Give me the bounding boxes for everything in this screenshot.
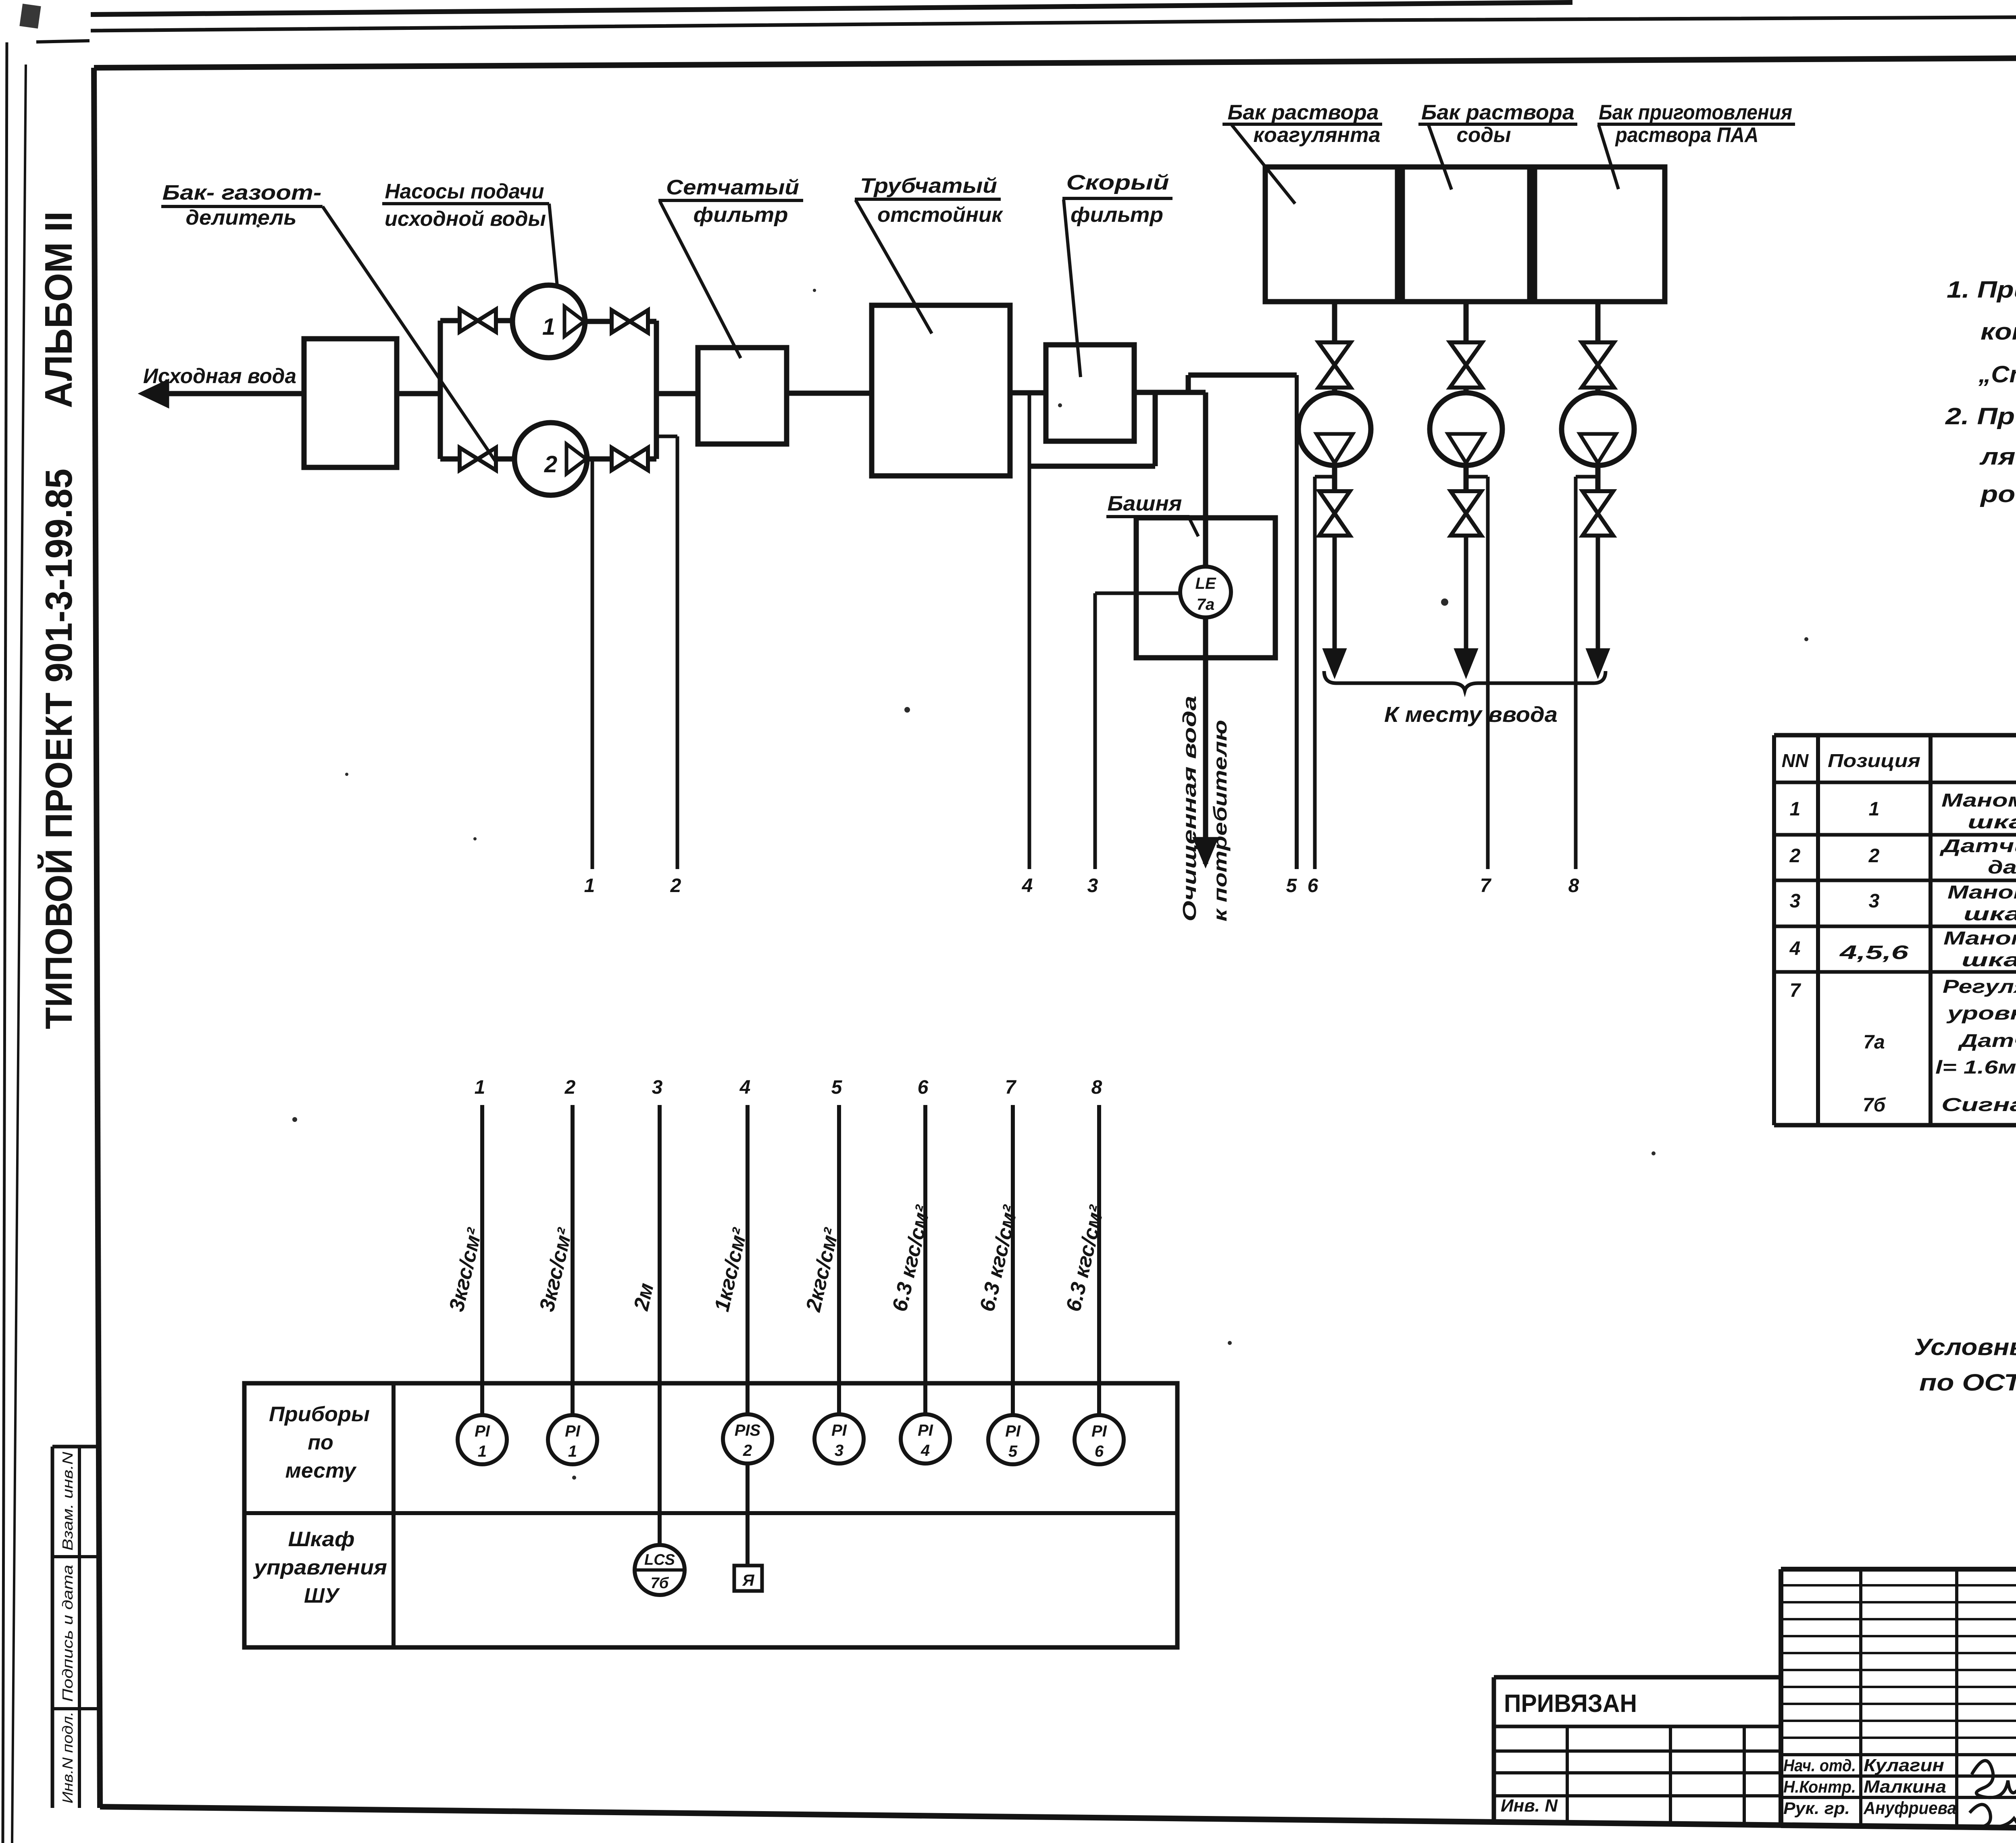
svg-text:Сигнальный Блок.: Сигнальный Блок. <box>1941 1094 2016 1115</box>
svg-text:Инв.N подл.: Инв.N подл. <box>59 1712 76 1803</box>
svg-text:PI: PI <box>1005 1422 1021 1440</box>
svg-text:ШУ: ШУ <box>304 1584 340 1607</box>
svg-text:соды: соды <box>1457 123 1511 147</box>
scan specks (noise marks from original) <box>1441 598 1448 606</box>
pump 2 (Насос 2) <box>514 423 587 495</box>
svg-text:4: 4 <box>1789 938 1801 959</box>
wire: main line to pump manifold <box>397 391 440 396</box>
svg-text:2: 2 <box>1789 845 1801 867</box>
dosing valve (ПАА) <box>1583 491 1613 513</box>
svg-text:Манометр технический: Манометр технический <box>1947 882 2016 903</box>
svg-text:PIS: PIS <box>735 1422 761 1439</box>
svg-text:PI: PI <box>475 1422 490 1440</box>
svg-text:шкала 0÷2.5 кгс/см²: шкала 0÷2.5 кгс/см² <box>1964 903 2016 924</box>
svg-text:PI: PI <box>565 1422 581 1440</box>
svg-text:Башня: Башня <box>1108 492 1182 515</box>
svg-text:4: 4 <box>1022 875 1033 896</box>
tank: Бак приготовления раствора ПАА <box>1535 167 1665 302</box>
svg-text:Насосы подачи: Насосы подачи <box>385 180 544 203</box>
svg-text:управления: управления <box>253 1556 387 1579</box>
instrument LCS 7б (cabinet) <box>635 1545 685 1595</box>
svg-text:Скорый: Скорый <box>1066 171 1169 194</box>
instrument PI 1 (local) <box>458 1415 507 1464</box>
svg-text:Условные обозначения прибо: Условные обозначения приборов <box>1914 1334 2016 1360</box>
svg-text:6: 6 <box>1308 875 1318 896</box>
dosing line arrow (коагулянт) <box>1333 536 1337 663</box>
leader to tank 2 <box>1429 125 1452 190</box>
leader line to Сетчатый фильтр <box>660 202 741 358</box>
valve before pump 2 <box>460 448 478 470</box>
svg-text:3: 3 <box>835 1442 843 1459</box>
pump 1 (Насос 1) <box>512 285 585 358</box>
svg-text:3: 3 <box>1087 875 1098 896</box>
instrument PI 1 (local) <box>548 1415 597 1464</box>
dosing line arrow (сода) <box>1464 536 1468 663</box>
svg-text:6: 6 <box>918 1077 929 1098</box>
svg-text:8: 8 <box>1091 1077 1102 1098</box>
wire: bottom branch <box>440 457 460 462</box>
svg-text:3: 3 <box>1869 890 1880 912</box>
impulse line 2 (from manifold) <box>656 435 677 438</box>
svg-text:Очищенная вода: Очищенная вода <box>1179 696 1200 921</box>
leader line to Скорый фильтр <box>1064 200 1081 377</box>
svg-text:Бак раствора: Бак раствора <box>1421 101 1574 124</box>
svg-text:Сетчатый: Сетчатый <box>666 176 799 199</box>
svg-text:месту: месту <box>285 1459 357 1482</box>
wire: treated water outlet with arrow <box>1203 617 1208 658</box>
svg-text:6: 6 <box>1095 1443 1104 1460</box>
leader to tank 3 <box>1599 125 1618 189</box>
svg-text:Инв. N: Инв. N <box>1501 1796 1558 1816</box>
line 4 continuation to cabinet lamp <box>746 1464 750 1566</box>
attachment box ПРИВЯЗАН <box>1494 1675 1781 1680</box>
lamp symbol Я (cabinet) <box>734 1566 762 1591</box>
svg-text:шкала 0÷4 кгс/см²: шкала 0÷4 кгс/см² <box>1968 811 2016 832</box>
svg-text:фильтр: фильтр <box>694 203 788 227</box>
svg-text:PI: PI <box>918 1422 933 1439</box>
svg-text:l= 1.6м – 1шт.; l=0.6м– 1шт.: l= 1.6м – 1шт.; l=0.6м– 1шт. <box>1935 1057 2016 1078</box>
svg-text:Исходная вода: Исходная вода <box>143 365 296 388</box>
svg-text:Датчик- реле разности: Датчик- реле разности <box>1939 835 2016 856</box>
svg-text:1. Прибор поз. 3 поставляет: 1. Прибор поз. 3 поставляется <box>1947 277 2016 303</box>
svg-text:„Струя“.: „Струя“. <box>1978 361 2016 388</box>
svg-text:5: 5 <box>1008 1443 1018 1460</box>
tank outlet pipe (коагулянт) <box>1332 302 1337 342</box>
tank outlet valve (сода) <box>1450 342 1482 365</box>
svg-text:LCS: LCS <box>644 1551 675 1568</box>
svg-text:PI: PI <box>1091 1422 1107 1440</box>
svg-text:Ануфриева: Ануфриева <box>1863 1798 1956 1818</box>
svg-text:Рук. гр.: Рук. гр. <box>1783 1799 1850 1818</box>
svg-text:Я: Я <box>742 1572 754 1589</box>
svg-text:5: 5 <box>1286 875 1297 896</box>
svg-text:7: 7 <box>1480 875 1492 896</box>
svg-text:5: 5 <box>831 1077 843 1098</box>
svg-text:1: 1 <box>1869 798 1880 820</box>
vessel: Скорый фильтр <box>1046 345 1134 441</box>
instrument PI 6 (local) <box>1075 1415 1124 1464</box>
svg-text:2: 2 <box>743 1442 752 1459</box>
impulse line 3 (from LE) <box>1095 592 1180 595</box>
dosing pump (сода) <box>1430 393 1502 465</box>
svg-text:4: 4 <box>739 1077 751 1098</box>
dosing valve (коагулянт) <box>1319 491 1350 513</box>
node: raw water inlet arrow (Исходная вода) <box>145 391 304 396</box>
svg-text:2. Приборы поз. 2 и поз. 4: 2. Приборы поз. 2 и поз. 4 постав- <box>1945 403 2016 429</box>
left bottom margin strip (Взам.инв.N / Подпись и дата / Инв.N подл.) <box>52 1445 100 1449</box>
svg-text:комплектно с установкой: комплектно с установкой <box>1981 319 2016 345</box>
wire: riser to impulse line 5 <box>1186 375 1191 392</box>
wire: settler to fast filter <box>1010 390 1046 396</box>
leader line to Бак-газоотделитель <box>323 206 496 461</box>
leader to tank 1 <box>1232 125 1295 204</box>
svg-text:Бак раствора: Бак раствора <box>1228 101 1379 124</box>
tank: Бак раствора соды <box>1402 167 1530 302</box>
impulse tap line (ПАА) <box>1576 475 1598 479</box>
svg-text:1: 1 <box>584 875 595 896</box>
svg-text:1: 1 <box>1790 798 1801 820</box>
svg-text:8: 8 <box>1568 875 1579 896</box>
pump manifold left header <box>438 321 443 459</box>
svg-text:Бак приготовления: Бак приготовления <box>1599 101 1792 124</box>
svg-text:отстойник: отстойник <box>877 203 1004 227</box>
wire: top branch <box>440 318 460 323</box>
pump manifold right header <box>654 321 659 459</box>
scan blob top-left <box>19 4 41 29</box>
impulse tap line (сода) <box>1466 475 1488 479</box>
dosing pump (ПАА) <box>1562 393 1634 465</box>
valve after pump 2 <box>587 457 612 462</box>
dosing valve (сода) <box>1451 491 1481 513</box>
svg-text:Взам. инв.N: Взам. инв.N <box>59 1451 76 1551</box>
svg-text:к потребителю: к потребителю <box>1210 720 1231 921</box>
svg-text:Кулагин: Кулагин <box>1864 1755 1944 1775</box>
svg-text:давления: давления <box>1988 857 2016 878</box>
svg-text:по: по <box>308 1431 333 1454</box>
svg-text:Позиция: Позиция <box>1828 750 1920 771</box>
brace: К месту ввода <box>1324 671 1606 690</box>
svg-text:2: 2 <box>1868 845 1880 867</box>
svg-text:Нач. отд.: Нач. отд. <box>1783 1756 1856 1775</box>
leader line to pump 1 <box>549 204 557 286</box>
page top edge line (second) <box>91 15 2016 31</box>
svg-text:PI: PI <box>831 1422 847 1439</box>
vessel: Сетчатый фильтр <box>698 348 787 444</box>
svg-text:LE: LE <box>1195 575 1216 592</box>
page top edge line (outer, wavy scan edge) <box>91 2 1572 15</box>
svg-text:уровня. В комплекте:: уровня. В комплекте: <box>1946 1003 2016 1024</box>
svg-text:1: 1 <box>542 314 555 340</box>
svg-text:7б: 7б <box>1863 1095 1886 1116</box>
svg-text:ляются комплектно с уст-: ляются комплектно с уст- <box>1979 444 2016 470</box>
svg-text:ройством АУР.: ройством АУР. <box>1980 481 2016 507</box>
svg-text:7а: 7а <box>1863 1032 1885 1053</box>
svg-text:2: 2 <box>544 451 557 477</box>
drawing frame left <box>94 68 100 1808</box>
svg-text:2: 2 <box>564 1077 576 1098</box>
svg-text:Датчики l= 2м – 1шт.;: Датчики l= 2м – 1шт.; <box>1958 1030 2016 1051</box>
svg-text:ПРИВЯЗАН: ПРИВЯЗАН <box>1504 1690 1637 1718</box>
impulse line 4 with bypass tee <box>1028 393 1031 869</box>
svg-text:1: 1 <box>568 1443 577 1460</box>
svg-text:делитель: делитель <box>186 206 297 229</box>
impulse line 1 (from pump 2 discharge) <box>591 459 594 869</box>
page left outer edge lines <box>3 42 7 1843</box>
svg-text:Бак- газоот-: Бак- газоот- <box>162 181 322 204</box>
tank outlet pipe (сода) <box>1464 302 1469 342</box>
impulse line 5 <box>1295 375 1299 869</box>
svg-text:АЛЬБОМ II: АЛЬБОМ II <box>37 211 80 408</box>
svg-text:7: 7 <box>1790 980 1801 1001</box>
svg-text:7б: 7б <box>651 1575 669 1592</box>
leader line to Башня <box>1189 517 1198 536</box>
drawing frame top <box>94 55 2016 68</box>
svg-text:Трубчатый: Трубчатый <box>860 174 997 198</box>
wire: strainer to settler <box>787 391 872 396</box>
vessel: Бак-газоотделитель <box>304 339 397 467</box>
leader line to Трубчатый отстойник <box>856 200 932 334</box>
instrument PIS 2 (local) <box>723 1414 772 1464</box>
svg-text:3: 3 <box>652 1077 663 1098</box>
svg-text:Шкаф: Шкаф <box>288 1528 355 1551</box>
signatures scribble <box>1972 1761 2016 1798</box>
bypass line under fast filter <box>1029 464 1155 469</box>
instrument PI 4 (local) <box>901 1414 950 1464</box>
svg-text:Приборы: Приборы <box>269 1403 370 1426</box>
svg-text:NN: NN <box>1782 750 1809 771</box>
impulse tap line (коагулянт) <box>1315 475 1335 479</box>
tank outlet pipe (ПАА) <box>1595 302 1601 342</box>
svg-text:4: 4 <box>921 1442 930 1459</box>
svg-text:Подпись и дата: Подпись и дата <box>59 1565 76 1702</box>
svg-text:2: 2 <box>670 875 681 896</box>
svg-text:Регулятор-сигнализатор: Регулятор-сигнализатор <box>1943 976 2016 997</box>
svg-text:по ОСТУ 36.27-77.: по ОСТУ 36.27-77. <box>1919 1370 2016 1396</box>
wire: tower feed drop <box>1203 392 1208 567</box>
svg-text:фильтр: фильтр <box>1070 203 1163 227</box>
vessel: Трубчатый отстойник <box>872 305 1010 476</box>
svg-text:1: 1 <box>475 1077 485 1098</box>
dosing pump (коагулянт) <box>1298 393 1371 465</box>
svg-text:7а: 7а <box>1197 596 1215 613</box>
local instruments table <box>244 1383 1177 1647</box>
top-left dash of second line <box>36 41 90 42</box>
svg-text:7: 7 <box>1005 1077 1017 1098</box>
valve before pump 1 <box>460 309 478 332</box>
dosing line arrow (ПАА) <box>1596 536 1600 663</box>
valve after pump 1 <box>585 319 612 324</box>
svg-text:исходной воды: исходной воды <box>385 207 546 231</box>
svg-text:3: 3 <box>1790 890 1801 912</box>
svg-text:К месту ввода: К месту ввода <box>1384 703 1558 727</box>
svg-text:Н.Контр.: Н.Контр. <box>1783 1777 1856 1796</box>
equipment list table <box>1774 733 2016 738</box>
svg-text:Манометр технический: Манометр технический <box>1943 928 2016 949</box>
svg-text:Манометр механический: Манометр механический <box>1941 790 2016 811</box>
svg-text:раствора ПАА: раствора ПАА <box>1615 123 1759 147</box>
tank outlet valve (ПАА) <box>1582 342 1614 365</box>
svg-text:коагулянта: коагулянта <box>1254 123 1381 147</box>
tank outlet valve (коагулянт) <box>1318 342 1351 365</box>
title block <box>1781 1567 2016 1572</box>
svg-text:Малкина: Малкина <box>1864 1777 1946 1797</box>
drawing frame bottom <box>100 1807 2016 1834</box>
instrument PI 5 (local) <box>988 1415 1037 1464</box>
svg-text:1: 1 <box>478 1443 487 1460</box>
svg-text:ТИПОВОЙ ПРОЕКТ 901-3-199.85: ТИПОВОЙ ПРОЕКТ 901-3-199.85 <box>37 469 80 1029</box>
vessel: Башня (tower) <box>1136 518 1275 658</box>
svg-text:4,5,6: 4,5,6 <box>1839 942 1908 963</box>
instrument PI 3 (local) <box>814 1414 864 1464</box>
svg-text:шкала 0- 10 кгс/ см²: шкала 0- 10 кгс/ см² <box>1962 949 2016 970</box>
instrument LE 7а (level element in tower) <box>1180 567 1231 617</box>
wire: manifold outlet to strainer <box>656 391 698 396</box>
wire: fast filter outlet <box>1134 390 1206 395</box>
tank: Бак раствора коагулянта <box>1265 167 1397 302</box>
